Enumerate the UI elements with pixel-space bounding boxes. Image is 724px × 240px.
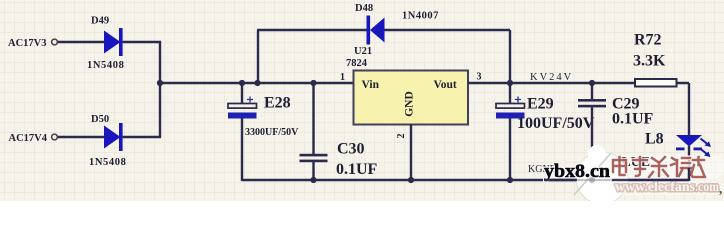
wire (160, 82, 354, 84)
LED L8 (676, 135, 702, 150)
junction (310, 80, 316, 86)
junction (589, 177, 595, 183)
svg-text:D49: D49 (91, 16, 109, 27)
capacitor C30 (300, 154, 328, 162)
junction (239, 80, 245, 86)
svg-text:1N5408: 1N5408 (87, 60, 124, 71)
svg-text:E29: E29 (527, 96, 554, 113)
svg-text:KV24V: KV24V (530, 72, 573, 83)
wire (123, 41, 162, 43)
capacitor E28 (228, 97, 257, 119)
diode D48 (367, 16, 385, 45)
junction (157, 80, 163, 86)
wire (385, 29, 511, 31)
svg-text:GND: GND (404, 91, 416, 117)
wire (312, 83, 314, 154)
wire (509, 119, 511, 182)
wire (410, 125, 412, 182)
junction (310, 177, 316, 183)
watermark www.elecfans.com (612, 179, 724, 196)
regulator U21 (7824) (354, 71, 469, 125)
junction (507, 80, 513, 86)
svg-text:R72: R72 (634, 32, 662, 49)
wire (123, 136, 162, 138)
svg-text:C30: C30 (337, 141, 365, 158)
capacitor E29 (496, 97, 525, 119)
LED L8 light arrows (700, 139, 711, 158)
svg-text:D48: D48 (355, 3, 373, 14)
svg-text:.com: .com (695, 179, 720, 194)
svg-text:3: 3 (477, 72, 482, 83)
watermark white logo (574, 145, 628, 204)
wire (591, 107, 593, 181)
resistor R72 (635, 79, 677, 87)
wire (688, 146, 690, 181)
svg-text:7824: 7824 (346, 58, 368, 69)
node AC17V4 port (9, 133, 58, 144)
svg-text:,: , (719, 181, 722, 196)
capacitor C29 (578, 99, 606, 107)
svg-text:Vout: Vout (434, 79, 457, 91)
svg-text:0.1UF: 0.1UF (336, 161, 378, 178)
wire (591, 83, 593, 99)
diode D49 (104, 28, 123, 56)
wire overlay: bottom net right portion (545, 179, 577, 181)
wire (312, 162, 314, 181)
svg-text:100UF/50V: 100UF/50V (517, 115, 595, 132)
junction (507, 177, 513, 183)
svg-text:AC17V3: AC17V3 (8, 38, 47, 49)
wire (612, 179, 689, 181)
svg-text:2: 2 (396, 134, 407, 139)
svg-text:3300UF/50V: 3300UF/50V (245, 127, 299, 138)
svg-text:D50: D50 (91, 114, 109, 125)
svg-text:1N5408: 1N5408 (89, 157, 126, 168)
watermark ybx8.cn (544, 162, 611, 182)
watermark white wash (607, 155, 724, 179)
node AC17V3 port (8, 38, 57, 49)
wire (242, 179, 689, 181)
wire (509, 30, 511, 83)
svg-text:3.3K: 3.3K (633, 53, 666, 70)
wire (faint through logo) (577, 179, 612, 181)
svg-text:1N4007: 1N4007 (402, 11, 439, 22)
svg-text:AC17V4: AC17V4 (9, 133, 48, 144)
junction (589, 177, 595, 183)
wire (257, 29, 367, 31)
svg-text:U21: U21 (354, 46, 372, 57)
svg-text:L8: L8 (645, 131, 664, 148)
svg-text:1: 1 (340, 72, 345, 83)
junction (254, 80, 260, 86)
junction (408, 177, 414, 183)
watermark red chinese characters (613, 157, 705, 177)
wire (241, 83, 243, 104)
wire (58, 136, 104, 138)
svg-text:Vin: Vin (362, 79, 380, 91)
wire overlay: LED lower lead (688, 168, 690, 181)
diode D50 (104, 123, 123, 151)
wire (159, 42, 161, 137)
svg-text:www.elecfans: www.elecfans (615, 179, 695, 194)
wire (257, 30, 259, 84)
svg-text:0.1UF: 0.1UF (612, 111, 654, 128)
wire (468, 82, 689, 84)
wire (688, 83, 690, 135)
junction (589, 80, 595, 86)
svg-text:E28: E28 (264, 95, 291, 112)
wire (58, 41, 104, 43)
wire (509, 83, 511, 104)
wire (241, 119, 243, 182)
